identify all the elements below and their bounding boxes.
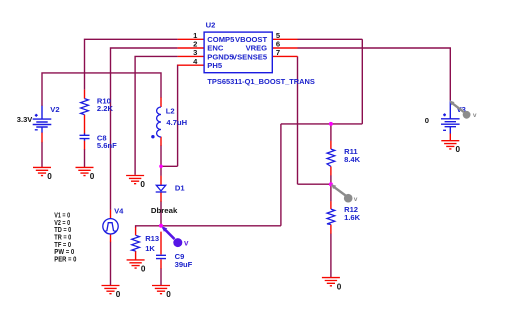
svg-text:0: 0 — [116, 290, 121, 299]
svg-text:0: 0 — [47, 172, 52, 181]
svg-text:2.2K: 2.2K — [97, 104, 114, 113]
svg-text:0: 0 — [166, 290, 171, 299]
svg-text:4.7uH: 4.7uH — [166, 118, 187, 127]
svg-text:0: 0 — [337, 282, 342, 291]
svg-text:VBOOST: VBOOST — [235, 35, 267, 44]
svg-text:8.4K: 8.4K — [344, 155, 361, 164]
svg-text:V2: V2 — [50, 105, 59, 114]
svg-text:R13: R13 — [145, 234, 159, 243]
svg-text:7: 7 — [276, 48, 280, 57]
svg-text:v: v — [354, 196, 358, 203]
svg-text:0: 0 — [90, 172, 95, 181]
svg-text:39uF: 39uF — [175, 260, 193, 269]
svg-text:0: 0 — [140, 180, 145, 189]
svg-text:VREG: VREG — [246, 44, 268, 53]
svg-text:5.6nF: 5.6nF — [97, 141, 117, 150]
svg-text:V4: V4 — [114, 207, 124, 216]
svg-text:3: 3 — [193, 48, 197, 57]
svg-text:v: v — [473, 112, 477, 119]
svg-text:PER = 0: PER = 0 — [54, 254, 76, 263]
svg-text:1.6K: 1.6K — [344, 213, 361, 222]
svg-text:ENC: ENC — [207, 44, 224, 53]
svg-text:0: 0 — [456, 145, 461, 154]
svg-text:PH5: PH5 — [207, 61, 223, 70]
svg-text:3.3V: 3.3V — [17, 115, 33, 124]
svg-text:D1: D1 — [175, 183, 185, 192]
svg-text:U2: U2 — [206, 21, 216, 30]
svg-text:0: 0 — [425, 116, 429, 125]
svg-text:VSENSE5: VSENSE5 — [232, 52, 268, 61]
svg-text:Dbreak: Dbreak — [151, 206, 178, 215]
svg-text:TPS65311-Q1_BOOST_TRANS: TPS65311-Q1_BOOST_TRANS — [207, 77, 315, 86]
svg-text:COMP5: COMP5 — [207, 35, 235, 44]
svg-text:1K: 1K — [145, 244, 155, 253]
svg-text:v: v — [184, 238, 189, 247]
svg-text:L2: L2 — [166, 106, 175, 115]
svg-text:0: 0 — [141, 264, 146, 273]
